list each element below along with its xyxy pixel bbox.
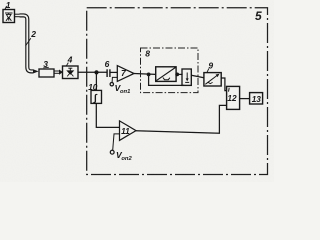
wire junction down to box 10 [95,72,97,90]
wire box B to box 9 [191,75,204,78]
node dot after box A [175,73,179,77]
symbol inside box 4 [67,68,73,76]
op-amp 7 (comparator triangle) [117,66,134,82]
box 3 [39,69,54,77]
box 4 (charge converter) [63,66,79,79]
dashed box 8 [141,48,199,93]
wire box 12 to box 13 [240,98,250,100]
connector box3 to box4 [54,71,59,73]
box 10 (integrator) [91,90,102,103]
node dot before box A [147,73,151,77]
wire amp7 to box A [134,73,156,76]
transducer symbol inside box 1 [5,13,13,21]
wire box4 to capacitor [78,71,107,73]
leader for label 2 [26,38,31,46]
box 1 (transducer) [3,10,15,23]
node junction dot [94,70,98,74]
bypass wire below box A [149,74,185,85]
leader for label 1 [5,6,7,9]
wire box10 down and to amp 11 [96,103,119,127]
functional box A (inside 8) [156,67,176,82]
cable 2 (double-line tube) [20,15,34,71]
feedback wire amp11 to box 12 [136,105,227,133]
functional box B (inside 8) [182,69,191,85]
Vop2 reference input [113,134,120,150]
dash-dot enclosure box 5 [87,8,268,175]
wire box 9 to box 12 [221,78,226,91]
wire cap to amp7 [110,71,118,73]
connector at box1 output [15,14,21,17]
op-amp 11 [120,121,137,140]
capacitor 6 [107,69,110,77]
cable end arrow [33,69,39,73]
box 13 [250,93,263,104]
box 12 [227,86,240,109]
Vop1 reference input [112,77,117,82]
wire box A to box B [176,73,183,75]
box 9 (adjustable converter) [204,73,221,86]
paper texture [0,0,1,1]
